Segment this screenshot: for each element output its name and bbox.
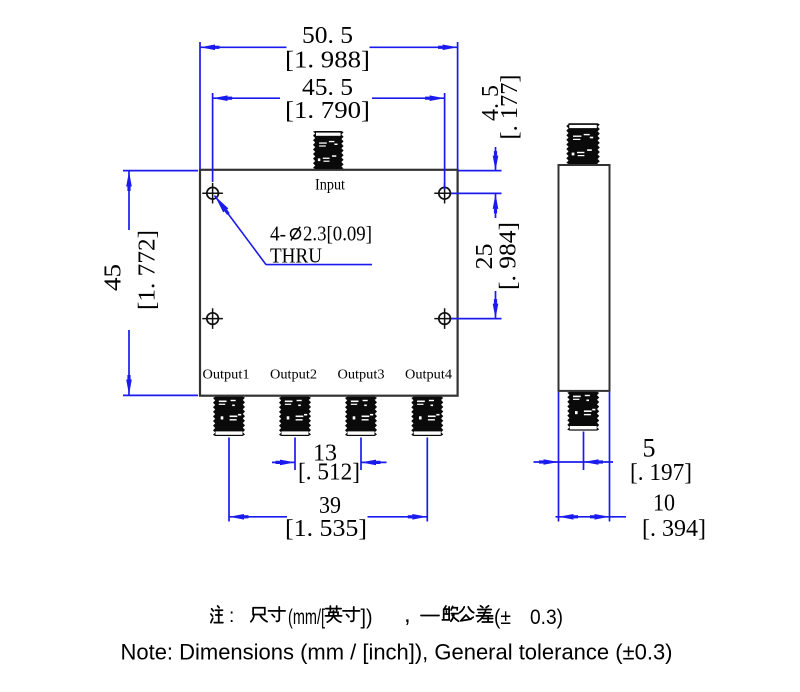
svg-text:Input: Input — [315, 177, 345, 194]
mounting hole H2 with center crosshair — [434, 183, 455, 204]
hole callout text 4-dia2.3[0.09] — [270, 222, 372, 246]
mounting hole H1 with center crosshair — [202, 183, 223, 204]
svg-text:0.3): 0.3) — [530, 606, 563, 629]
leader arrow to hole H1 — [215, 196, 373, 265]
svg-text:]): ]) — [361, 606, 373, 629]
svg-text:[1. 772]: [1. 772] — [135, 230, 161, 310]
svg-text:,: , — [404, 601, 411, 628]
output connector 1 (bottom, threaded) — [213, 397, 245, 436]
dimension 45.5 [1.790] dimension line with arrows — [213, 95, 445, 101]
svg-text:45: 45 — [101, 264, 127, 291]
svg-text:[1. 790]: [1. 790] — [285, 98, 370, 124]
input connector (top, threaded) — [313, 131, 344, 169]
output connector 2 (bottom, threaded) — [279, 397, 311, 436]
svg-text::: : — [229, 606, 234, 627]
svg-text:[. 984]: [. 984] — [496, 222, 522, 290]
svg-text:[. 394]: [. 394] — [642, 516, 706, 542]
svg-text:THRU: THRU — [270, 244, 322, 268]
extension line from body top edge (right) — [458, 170, 502, 172]
dimension 4.5 [.177] line with arrows — [493, 147, 499, 171]
dimension 50.5 [1.988] extension lines — [200, 42, 458, 169]
svg-text:Output2: Output2 — [270, 368, 317, 383]
dimension 10 [.394] line with arrows — [556, 514, 627, 520]
side view bottom connector (threaded) — [567, 392, 599, 431]
mounting hole H4 with center crosshair — [434, 308, 455, 329]
svg-text:25: 25 — [472, 244, 498, 270]
svg-text:[1. 988]: [1. 988] — [285, 48, 370, 74]
svg-text:Output4: Output4 — [405, 368, 452, 383]
dimension 45 [1.772] extension lines (left) — [123, 171, 198, 396]
svg-text:[. 197]: [. 197] — [630, 460, 692, 486]
dimension 5/10 extension line left — [558, 392, 560, 522]
extension line from top-right hole — [451, 192, 502, 194]
dimension 39 [1.535] extension lines — [229, 438, 427, 522]
svg-text:(±: (± — [494, 606, 511, 629]
output connector 3 (bottom, threaded) — [345, 397, 377, 436]
side view body outline — [559, 165, 610, 391]
output connector 4 (bottom, threaded) — [411, 397, 443, 436]
svg-text:5: 5 — [643, 434, 656, 463]
dimension 45.5 [1.790] extension lines — [213, 93, 445, 190]
dimension 45 [1.772] vertical dimension line with arrows — [126, 172, 132, 395]
dimension 10 extension line right — [609, 392, 611, 522]
dimension 5 [.197] line with outside arrows — [534, 459, 614, 465]
svg-text:Note: Dimensions (mm / [inch]): Note: Dimensions (mm / [inch]), General … — [121, 640, 673, 665]
svg-text:10: 10 — [653, 491, 675, 517]
svg-text:50. 5: 50. 5 — [302, 23, 353, 49]
svg-text:[. 177]: [. 177] — [497, 75, 523, 140]
svg-text:[. 512]: [. 512] — [298, 460, 360, 486]
dimension 13 [.512] extension lines — [295, 438, 361, 471]
mounting hole H3 with center crosshair — [202, 308, 223, 329]
svg-text:[1. 535]: [1. 535] — [285, 516, 367, 542]
dimension 5 [.197] extension line at connector center — [583, 432, 585, 471]
dimension 13 [.512] line with outside arrows — [272, 460, 387, 466]
dimension 39 [1.535] line with arrows — [229, 514, 427, 520]
svg-text:2.3[0.09]: 2.3[0.09] — [303, 222, 372, 246]
svg-text:4-: 4- — [270, 222, 286, 246]
svg-text:(mm/[: (mm/[ — [288, 606, 325, 629]
extension line from bottom-right hole — [451, 318, 502, 320]
svg-text:Output1: Output1 — [203, 368, 250, 383]
note line 1 (Chinese): zhu: chicun(mm/[yingcun]) , yiban gongcha(+-0.3) — [211, 601, 563, 629]
svg-text:Output3: Output3 — [338, 368, 385, 383]
dimension 50.5 [1.988] dimension line with arrows — [200, 45, 458, 51]
side view top connector (threaded) — [566, 123, 600, 164]
front view main body outline — [200, 170, 458, 396]
dimension 25 [.984] line with arrows — [493, 194, 499, 319]
